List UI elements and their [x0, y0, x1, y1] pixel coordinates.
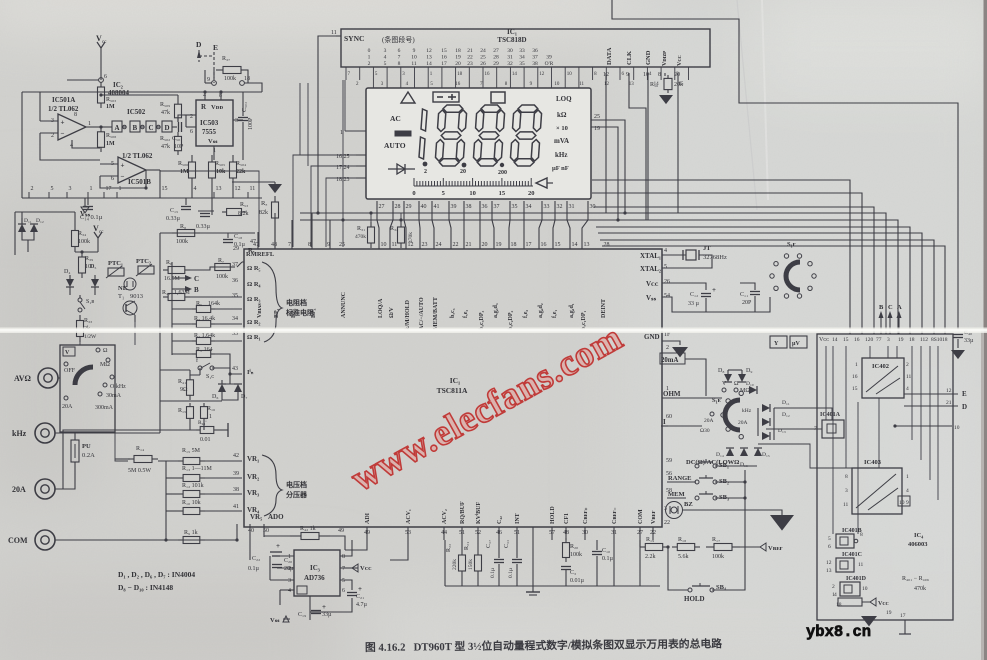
svg-text:4: 4 — [664, 248, 667, 254]
wire S1c down — [199, 368, 201, 375]
svg-text:kHz: kHz — [12, 429, 27, 438]
svg-text:19: 19 — [455, 55, 461, 61]
wire GND down — [647, 73, 649, 220]
svg-text:Ω30: Ω30 — [700, 428, 710, 434]
svg-text:20: 20 — [528, 190, 535, 197]
svg-text:0.1µ: 0.1µ — [508, 568, 514, 578]
resistor R37 100k — [216, 69, 223, 71]
svg-text:4: 4 — [194, 186, 197, 192]
svg-text:0.1µ: 0.1µ — [248, 566, 260, 572]
svg-text:11: 11 — [858, 562, 864, 568]
svg-text:24: 24 — [480, 48, 486, 54]
ladder vertical wires display to chip — [377, 201, 379, 249]
resistor R53 8.2k — [222, 211, 227, 213]
svg-text:Vᴄᴄ: Vᴄᴄ — [360, 565, 372, 572]
svg-text:11: 11 — [411, 61, 417, 67]
svg-text:C: C — [194, 275, 199, 283]
svg-text:0.1µ: 0.1µ — [602, 556, 614, 562]
svg-text:37: 37 — [532, 55, 538, 61]
svg-text:21: 21 — [467, 48, 473, 54]
svg-text:R₅₀₃: R₅₀₃ — [106, 97, 116, 103]
svg-text:19: 19 — [496, 242, 502, 248]
svg-text:TSC818D: TSC818D — [497, 36, 526, 44]
resistor R7 100k — [210, 266, 215, 268]
bar bottom connection ticks to display — [345, 67, 347, 80]
svg-text:IC₁: IC₁ — [507, 28, 517, 36]
switches SB1 SB2 SB3 — [695, 464, 699, 468]
svg-text:3: 3 — [384, 48, 387, 54]
svg-text:31: 31 — [507, 55, 513, 61]
svg-text:AC/−/AUTO: AC/−/AUTO — [419, 297, 425, 330]
svg-text:R₃₃: R₃₃ — [84, 318, 92, 324]
wires right block to chip — [756, 444, 758, 466]
capacitor C19 33u — [309, 596, 311, 620]
svg-text:HOLD: HOLD — [550, 506, 556, 524]
svg-text:aₓg₁d₁: aₓg₁d₁ — [569, 303, 575, 318]
svg-text:A: A — [115, 124, 120, 132]
svg-text:R₁₉: R₁₉ — [646, 537, 654, 543]
svg-text:59: 59 — [666, 458, 672, 464]
power Vss arrow top right — [957, 339, 959, 348]
svg-text:4: 4 — [906, 386, 909, 392]
capacitor C21 4.7u — [340, 580, 352, 590]
svg-text:AD736: AD736 — [304, 574, 325, 582]
wire bridge rail — [722, 443, 766, 445]
svg-text:fₓe₃: fₓe₃ — [463, 310, 469, 318]
svg-text:56: 56 — [666, 471, 672, 477]
main chip IC1 TSC811A outline — [244, 249, 662, 527]
svg-text:D₉: D₉ — [746, 368, 752, 374]
svg-text:40: 40 — [421, 204, 427, 210]
svg-text:O kHz: O kHz — [110, 384, 126, 390]
diodes D14 D15 D16 bottom — [726, 448, 734, 456]
wire INT HOLD drops — [532, 540, 534, 586]
svg-text:电压档: 电压档 — [286, 480, 307, 489]
svg-text:Vₛₛ: Vₛₛ — [80, 210, 91, 218]
svg-text:R₅₀₆: R₅₀₆ — [178, 161, 188, 167]
svg-text:R₉ 1k: R₉ 1k — [184, 530, 198, 536]
svg-text:+: + — [358, 585, 362, 593]
resistor R33 2k 1/2W — [79, 315, 81, 321]
resistor R40 9ohm — [189, 375, 191, 380]
watermark www.elecfans.com — [344, 317, 630, 500]
svg-text:bₓc₃DP₃: bₓc₃DP₃ — [479, 310, 485, 330]
wires AD736 left pins — [277, 555, 294, 557]
svg-text:D₁₁: D₁₁ — [24, 218, 32, 224]
svg-text:分压器: 分压器 — [286, 490, 308, 499]
resistor R6 16.5M — [163, 269, 168, 271]
IC bar U-top IC1 TSC818D — [341, 29, 710, 67]
wire top supply loop — [612, 0, 958, 330]
svg-text:25: 25 — [594, 114, 600, 120]
svg-text:2: 2 — [51, 133, 54, 139]
svg-text:164k: 164k — [208, 301, 220, 307]
svg-text:9013: 9013 — [130, 293, 143, 300]
svg-text:R₁₀ 10k: R₁₀ 10k — [182, 500, 201, 506]
resistor R17 100k — [706, 546, 714, 548]
svg-text:3: 3 — [69, 186, 72, 192]
svg-text:Ω R₄: Ω R₄ — [247, 281, 261, 288]
wire Vcc arrow bottom right block — [838, 598, 862, 606]
zener diodes D11 D12 left edge — [14, 212, 16, 255]
wires IC402 — [904, 381, 940, 383]
svg-text:20A: 20A — [12, 485, 26, 494]
svg-text:34: 34 — [519, 55, 525, 61]
LCD battery symbol — [433, 92, 459, 102]
wires current shunt — [160, 400, 222, 402]
resistor R15b — [189, 403, 191, 407]
nested bus wires right side — [592, 180, 850, 334]
svg-text:1: 1 — [906, 474, 909, 480]
wire 20mA loop — [694, 341, 700, 357]
arrows B C A — [880, 316, 882, 334]
wires ladder pins to chip — [242, 261, 244, 263]
buzzer Vss arrow — [770, 515, 794, 531]
svg-text:28: 28 — [493, 55, 499, 61]
svg-text:A: A — [897, 304, 902, 311]
LCD digit 8 first — [435, 105, 467, 166]
wires SB to right rail — [715, 465, 745, 467]
svg-text:Vʀᴇғ: Vʀᴇғ — [768, 545, 783, 552]
capacitor C15 0.33u — [185, 198, 187, 205]
resistor R503 1M — [100, 82, 102, 87]
brace resistance standard resistors — [262, 262, 282, 342]
svg-text:C₂₂: C₂₂ — [252, 556, 260, 562]
svg-text:408004: 408004 — [108, 89, 130, 97]
svg-text:Vₛₛ: Vₛₛ — [646, 294, 657, 302]
capacitor C40 33u top right — [953, 334, 963, 336]
svg-text:10: 10 — [954, 425, 960, 431]
svg-text:28: 28 — [395, 204, 401, 210]
svg-text:24: 24 — [436, 242, 442, 248]
wire bottom ground rail — [445, 585, 660, 587]
neon lamp NE — [124, 278, 136, 290]
svg-text:26: 26 — [480, 61, 486, 67]
svg-text:25: 25 — [339, 242, 345, 248]
svg-text:2: 2 — [368, 61, 371, 67]
IC403 analog switch — [852, 468, 902, 514]
svg-text:16: 16 — [852, 374, 858, 380]
svg-text:T₁: T₁ — [118, 293, 124, 300]
svg-text:0.01µ: 0.01µ — [570, 578, 585, 584]
wire 20A terminal feed — [55, 488, 75, 490]
svg-text:9Ω: 9Ω — [180, 387, 188, 393]
svg-text:39: 39 — [233, 471, 239, 477]
svg-text:R₅₀₈: R₅₀₈ — [106, 133, 116, 139]
svg-text:f: f — [196, 357, 198, 364]
svg-text:4.7µ: 4.7µ — [356, 602, 368, 608]
svg-text:100P: 100P — [248, 117, 254, 130]
wires bridge to right block — [774, 408, 832, 420]
svg-text:470k: 470k — [408, 232, 414, 243]
svg-text:0: 0 — [368, 48, 371, 54]
svg-text:1: 1 — [288, 554, 291, 560]
resistor R56 20k — [664, 73, 666, 76]
svg-text:标准电阻: 标准电阻 — [285, 308, 314, 317]
inverter gates A B C D — [112, 121, 122, 132]
svg-text:ACV₁: ACV₁ — [406, 509, 412, 524]
svg-text:35: 35 — [512, 204, 518, 210]
svg-text:0: 0 — [412, 190, 415, 197]
svg-text:6: 6 — [398, 48, 401, 54]
svg-text:28: 28 — [604, 242, 610, 248]
resistor R39 100 — [81, 252, 83, 257]
power Vss arrow left — [84, 198, 86, 206]
svg-text:1: 1 — [368, 55, 371, 61]
svg-text:C₄₂: C₄₂ — [497, 516, 503, 524]
svg-text:Vʙɪᴀs: Vʙɪᴀs — [257, 303, 263, 318]
svg-text:470k: 470k — [914, 586, 926, 592]
svg-text:D₄: D₄ — [64, 269, 70, 275]
svg-text:R₂₁: R₂₁ — [464, 542, 470, 550]
svg-text:32: 32 — [507, 61, 513, 67]
wire CLK down — [629, 73, 646, 220]
svg-text:R₁₅: R₁₅ — [178, 408, 186, 414]
wire bottom rail oscillator — [22, 197, 262, 199]
wire display pin 17,24 to chip pin 8 — [311, 166, 356, 247]
svg-text:18: 18 — [942, 337, 948, 343]
resistor R508 1M — [100, 127, 102, 132]
svg-text:18: 18 — [909, 337, 915, 343]
svg-text:S₁ғ: S₁ғ — [787, 241, 796, 248]
svg-text:R₃₁: R₃₁ — [357, 226, 365, 232]
svg-text:0.33µ: 0.33µ — [166, 216, 181, 222]
svg-text:Cʀᴇғ₊: Cʀᴇғ₊ — [583, 507, 589, 524]
terminal 20A — [35, 479, 55, 499]
svg-text:34: 34 — [526, 204, 532, 210]
svg-text:13: 13 — [216, 186, 222, 192]
svg-text:0.01: 0.01 — [200, 437, 211, 443]
svg-text:R₁₇: R₁₇ — [712, 537, 720, 543]
svg-text:VR₂: VR₂ — [247, 473, 259, 481]
fuse PU 0.2A — [71, 440, 79, 462]
wire ADO down — [249, 524, 251, 560]
svg-text:1: 1 — [90, 186, 93, 192]
svg-text:100k: 100k — [570, 552, 582, 558]
svg-text:D₁₆: D₁₆ — [740, 462, 748, 468]
wire top rail to chip — [160, 232, 255, 234]
resistor R509 47k — [177, 100, 179, 104]
svg-text:CLK: CLK — [626, 51, 633, 65]
svg-text:5: 5 — [342, 578, 345, 584]
resistor Rx 82k with Vss arrow — [232, 181, 275, 183]
svg-text:34: 34 — [232, 316, 238, 322]
svg-text:CF1: CF1 — [564, 513, 570, 524]
resistor R9 1k — [178, 539, 183, 541]
svg-text:100k: 100k — [176, 239, 188, 245]
svg-text:43: 43 — [232, 366, 238, 372]
svg-text:B: B — [194, 286, 199, 294]
svg-text:R₃ 16.4k: R₃ 16.4k — [194, 316, 215, 322]
svg-text:100k: 100k — [224, 76, 236, 82]
svg-text:R₅₆: R₅₆ — [650, 82, 658, 88]
svg-text:2: 2 — [666, 345, 669, 351]
svg-text:14: 14 — [426, 61, 432, 67]
svg-text:+: + — [712, 286, 716, 294]
svg-text:5: 5 — [51, 186, 54, 192]
crystal JT 32768Hz — [662, 254, 686, 256]
svg-text:DATA: DATA — [606, 47, 613, 65]
svg-text:Vₛₛ: Vₛₛ — [270, 617, 280, 624]
svg-text:20P: 20P — [742, 300, 752, 306]
IC3 AD736 block — [294, 550, 340, 596]
svg-text:1: 1 — [666, 386, 669, 392]
svg-text:C₂₁: C₂₁ — [356, 594, 364, 600]
svg-text:aₓg₂d₂: aₓg₂d₂ — [538, 303, 544, 318]
svg-text:5.6k: 5.6k — [678, 554, 689, 560]
resistor R17b 0.01 — [196, 429, 200, 431]
svg-text:mVA: mVA — [554, 137, 569, 145]
svg-text:Vᴄᴄ: Vᴄᴄ — [878, 601, 889, 607]
svg-text:33: 33 — [544, 204, 550, 210]
resistor R12 101k — [178, 493, 183, 495]
svg-text:29: 29 — [406, 204, 412, 210]
brace voltage divider — [262, 455, 282, 516]
svg-text:77: 77 — [876, 337, 882, 343]
wire pin 10 stub right block — [895, 425, 952, 427]
wire op-amp inputs — [40, 120, 58, 122]
svg-text:cc: cc — [99, 230, 104, 235]
svg-text:4: 4 — [834, 592, 837, 598]
svg-text:54: 54 — [664, 293, 670, 299]
svg-text:27: 27 — [379, 204, 385, 210]
svg-text:8: 8 — [658, 72, 661, 78]
svg-text:4: 4 — [384, 55, 387, 61]
svg-text:R₃₇: R₃₇ — [222, 56, 230, 62]
svg-text:COM: COM — [638, 509, 644, 524]
svg-text:3: 3 — [235, 118, 238, 124]
svg-text:13: 13 — [426, 55, 432, 61]
svg-text:SYNC: SYNC — [344, 34, 364, 43]
svg-text:MΩ: MΩ — [100, 362, 110, 368]
wire outer feedback loop — [67, 79, 99, 81]
svg-text:× 10: × 10 — [556, 125, 568, 132]
svg-text:Ω: Ω — [103, 348, 108, 354]
svg-text:VR₅: VR₅ — [250, 513, 262, 521]
svg-text:1: 1 — [119, 186, 122, 192]
svg-text:bₓc₂DP₂: bₓc₂DP₂ — [508, 310, 514, 330]
svg-text:D₁₂: D₁₂ — [36, 218, 44, 224]
svg-text:GND: GND — [645, 50, 652, 65]
capacitor C18 0.1u — [227, 233, 229, 238]
svg-text:23: 23 — [422, 242, 428, 248]
svg-text:9: 9 — [413, 48, 416, 54]
svg-text:V: V — [65, 350, 70, 356]
svg-text:IC401D: IC401D — [846, 576, 867, 582]
svg-text:29: 29 — [493, 61, 499, 67]
power Vcc top-left — [97, 42, 105, 48]
svg-text:20A: 20A — [738, 420, 748, 426]
svg-text:D₅: D₅ — [90, 264, 96, 270]
svg-text:300mA: 300mA — [95, 405, 114, 411]
svg-text:7: 7 — [398, 55, 401, 61]
svg-text:D₇: D₇ — [241, 394, 247, 400]
capacitor C10 0.1u — [596, 540, 598, 550]
svg-text:16: 16 — [455, 82, 461, 87]
svg-text:21: 21 — [946, 400, 952, 406]
svg-text:0.2A: 0.2A — [82, 452, 95, 459]
svg-text:IC503: IC503 — [200, 119, 219, 127]
resistor R21 150k — [477, 540, 479, 555]
svg-text:1: 1 — [88, 121, 91, 127]
svg-text:120: 120 — [865, 337, 874, 343]
svg-text:0.33µ: 0.33µ — [196, 224, 211, 230]
svg-text:R₅₀₅: R₅₀₅ — [215, 161, 225, 167]
svg-text:AUTO: AUTO — [384, 141, 406, 150]
chip right pin 20mA — [660, 353, 685, 364]
svg-text:R₅: R₅ — [196, 301, 202, 307]
resistor R32 470k — [400, 222, 402, 227]
svg-text:11: 11 — [250, 186, 256, 192]
svg-text:R₃₄: R₃₄ — [78, 231, 86, 237]
IC503 7555 timer — [196, 100, 233, 146]
svg-text:C₁₁: C₁₁ — [740, 292, 748, 298]
wire chip pin 47 to oscillator — [160, 171, 259, 247]
capacitor C14 0.1u — [87, 198, 89, 205]
svg-text:R₁₄: R₁₄ — [136, 446, 144, 452]
svg-text:DEINT: DEINT — [601, 299, 607, 318]
svg-text:100k: 100k — [78, 239, 90, 245]
svg-text:100k: 100k — [712, 554, 724, 560]
svg-text:40: 40 — [248, 528, 254, 534]
svg-text:IC₃: IC₃ — [310, 564, 320, 572]
svg-text:10: 10 — [554, 82, 560, 87]
capacitor C16 0.33u — [200, 213, 210, 215]
svg-text:Vᴄᴄ: Vᴄᴄ — [677, 55, 683, 66]
svg-text:6: 6 — [828, 544, 831, 550]
svg-text:14: 14 — [832, 337, 838, 343]
svg-text:8: 8 — [845, 474, 848, 480]
svg-text:D: D — [196, 40, 202, 49]
resistor R8 100k — [172, 232, 177, 234]
svg-text:17: 17 — [441, 61, 447, 67]
svg-text:15: 15 — [843, 337, 849, 343]
svg-text:0.1µ: 0.1µ — [234, 242, 246, 248]
wires S1f — [755, 282, 772, 284]
svg-text:17: 17 — [106, 186, 112, 192]
svg-text:4: 4 — [906, 488, 909, 494]
svg-text:6: 6 — [111, 176, 114, 182]
svg-text:0.1µ: 0.1µ — [490, 568, 496, 578]
svg-text:R₃₂: R₃₂ — [390, 226, 398, 232]
svg-text:IC₄: IC₄ — [914, 532, 923, 539]
svg-text:D₈: D₈ — [718, 368, 724, 374]
svg-text:33: 33 — [519, 48, 525, 54]
arrow to B — [172, 288, 185, 290]
svg-text:12: 12 — [946, 388, 952, 394]
svg-text:Rₓ: Rₓ — [261, 200, 267, 207]
svg-text:12: 12 — [235, 186, 241, 192]
terminal COM — [35, 530, 55, 550]
wire ADI ACV long drops — [345, 540, 367, 550]
wire bus verticals into right block — [827, 227, 829, 334]
svg-text:2.2k: 2.2k — [645, 554, 656, 560]
svg-text:33µ: 33µ — [322, 612, 332, 618]
svg-text:D₁₁: D₁₁ — [782, 400, 790, 406]
svg-text:2: 2 — [31, 186, 34, 192]
svg-text:OFF: OFF — [64, 368, 76, 374]
svg-text:R₅₀₂: R₅₀₂ — [160, 136, 170, 142]
svg-text:20: 20 — [482, 242, 488, 248]
resistor R505 10k — [211, 155, 213, 162]
wire DATA down — [605, 73, 607, 213]
svg-text:47k: 47k — [161, 110, 170, 116]
wires into chip top-left BP pins — [257, 232, 259, 249]
svg-text:(条图段号): (条图段号) — [382, 35, 415, 44]
diodes D6 D7 — [218, 384, 226, 392]
wire rotary to R14 — [115, 380, 128, 461]
svg-text:18: 18 — [457, 72, 463, 77]
